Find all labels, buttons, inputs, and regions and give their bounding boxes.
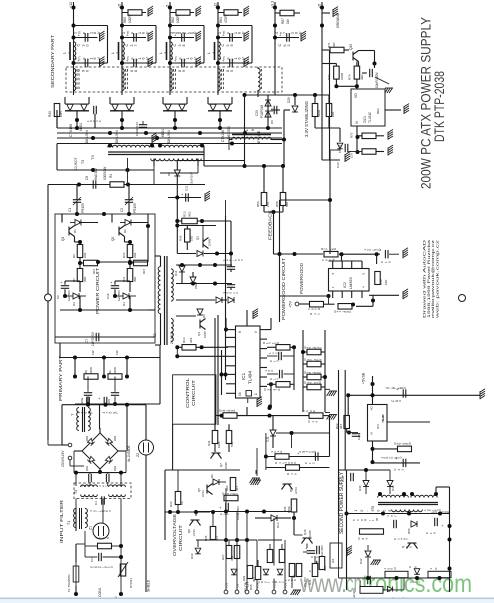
- junction: [126, 183, 130, 187]
- wire cx1 down: [89, 482, 91, 486]
- junction: [119, 592, 123, 596]
- junction: [198, 263, 202, 267]
- stub a D20: [114, 103, 116, 106]
- junction: [200, 219, 204, 223]
- wire bus to bridge right: [126, 405, 128, 451]
- bus wire y=128: [57, 127, 282, 129]
- resistor R4: [110, 182, 124, 188]
- powergood left vertical: [279, 200, 281, 322]
- toroid core dash b x=218: [223, 69, 225, 90]
- svg-text:D30: D30: [391, 485, 395, 491]
- varistor Z2: [139, 440, 154, 455]
- wire y253 a: [177, 253, 196, 255]
- junction: [448, 524, 452, 528]
- wire TL431 ref out: [385, 109, 401, 111]
- drop R9: [74, 358, 76, 377]
- T3 tap b: [201, 144, 203, 146]
- wire to R net Q2: [125, 241, 131, 243]
- svg-text:D4: D4: [122, 302, 126, 306]
- diode D20b: [126, 104, 132, 110]
- wire selector to bridge: [70, 465, 84, 467]
- wire term -5V: [236, 584, 238, 590]
- svg-text:D91: D91: [85, 465, 89, 471]
- junction: [191, 282, 195, 286]
- capacitor C29: [274, 106, 277, 114]
- resistor R72: [334, 66, 340, 79]
- resistor R38: [307, 374, 321, 380]
- power circuit outline box: [55, 214, 155, 343]
- resistor R15: [307, 361, 321, 367]
- wire R54 right: [237, 415, 247, 417]
- junction: [200, 345, 204, 349]
- junction: [102, 212, 106, 216]
- svg-text:C21: C21: [185, 185, 189, 191]
- stub: [230, 265, 232, 267]
- capacitor C11d: [227, 267, 235, 270]
- wire bridge right: [118, 450, 126, 452]
- junction: [72, 36, 76, 40]
- stub R72: [335, 64, 337, 67]
- diode D9v: [174, 170, 180, 176]
- drop R2 right: [126, 358, 128, 377]
- wire to R75: [358, 135, 363, 137]
- diode ZD02: [277, 569, 283, 575]
- junction: [113, 402, 117, 406]
- junction: [245, 538, 249, 542]
- svg-text:560R: 560R: [317, 109, 321, 117]
- junction: [373, 62, 377, 66]
- resistor R88: [428, 571, 451, 577]
- transformer T2 secondary upper: [171, 269, 173, 301]
- junction: [200, 144, 204, 148]
- svg-text:1uF/25V: 1uF/25V: [352, 588, 356, 599]
- resistor R90: [360, 587, 383, 594]
- junction: [175, 354, 179, 358]
- junction: [211, 510, 215, 514]
- stub R31: [269, 544, 271, 550]
- stub2: [230, 269, 232, 272]
- wire pin9 jog: [267, 329, 271, 331]
- resistor R41: [338, 304, 352, 310]
- resistor R45: [307, 349, 321, 355]
- resistor R13: [182, 218, 198, 224]
- svg-text:A733: A733: [294, 487, 298, 494]
- arrow mark C1: [73, 197, 81, 205]
- wire to D13: [255, 517, 271, 519]
- T2 core bar 2: [166, 256, 168, 345]
- wire right join vertical: [293, 356, 295, 390]
- T5 winding c: [81, 495, 98, 497]
- wire to R87: [275, 12, 280, 14]
- capacitor C90: [85, 59, 88, 67]
- junction: [375, 252, 379, 256]
- svg-text:9: 9: [254, 331, 258, 333]
- capacitor C32: [368, 576, 371, 584]
- svg-text:VI: VI: [355, 121, 359, 124]
- long vertical x338: [338, 370, 340, 514]
- marker circle left: [45, 294, 52, 301]
- capacitor C3: [84, 393, 92, 396]
- svg-text:100K: 100K: [217, 441, 221, 448]
- svg-text:web: pavouk.comp.cz: web: pavouk.comp.cz: [435, 239, 439, 318]
- junction: [126, 168, 130, 172]
- wire R14 right: [196, 346, 228, 348]
- wire bus y449: [373, 448, 411, 450]
- wire join y540: [213, 539, 237, 541]
- wire C14 left: [85, 556, 97, 558]
- diode D9h: [213, 479, 219, 485]
- stub R41: [352, 305, 354, 307]
- wire IC3 gnd long: [387, 421, 430, 423]
- junction: [96, 260, 100, 264]
- resistor R29: [247, 566, 253, 579]
- resistor R16: [127, 245, 133, 258]
- wire R25 top: [212, 512, 214, 527]
- svg-text:15R: 15R: [59, 110, 63, 117]
- wire T1 span: [75, 508, 77, 531]
- capacitor C22: [307, 551, 315, 554]
- long vertical x345: [344, 370, 346, 470]
- svg-text:CIRCUIT: CIRCUIT: [191, 380, 196, 406]
- junction: [108, 131, 112, 135]
- wire x330 top: [330, 149, 340, 151]
- svg-text:C945: C945: [308, 530, 312, 537]
- wire C9 bottom: [64, 289, 66, 296]
- svg-text:CONTROL: CONTROL: [185, 377, 190, 408]
- svg-text:INPUT FILTER: INPUT FILTER: [59, 499, 64, 543]
- resistor R49: [54, 104, 60, 117]
- svg-text:R4: R4: [109, 174, 113, 178]
- wire cap row C38: [170, 37, 194, 39]
- junction: [102, 375, 106, 379]
- svg-text:R9: R9: [84, 370, 88, 374]
- svg-text:R60: R60: [123, 17, 127, 23]
- junction: [278, 252, 282, 256]
- stub a D19: [69, 103, 71, 106]
- junction: [215, 252, 219, 256]
- package bar D22: [208, 110, 232, 112]
- wire D30b top: [389, 470, 391, 481]
- lead b D21: [186, 97, 188, 104]
- svg-text:3.3V STABILIZING: 3.3V STABILIZING: [304, 101, 309, 137]
- wire vertical x218: [217, 315, 219, 425]
- junction: [269, 382, 273, 386]
- IC1 right pin y=349: [260, 348, 267, 350]
- svg-text:C8: C8: [85, 176, 89, 180]
- wire term feed 2: [236, 512, 238, 585]
- svg-text:ZIC1: ZIC1: [363, 116, 367, 123]
- loop wire return C90: [98, 62, 108, 64]
- wire D11 bottom: [272, 436, 274, 448]
- wire bus to Z2: [145, 405, 147, 440]
- resistor R85: [398, 446, 412, 452]
- wire TL431 bottom: [356, 126, 358, 152]
- stub cx2: [107, 473, 109, 474]
- wire mid Q2: [129, 258, 131, 269]
- junction: [175, 196, 179, 200]
- wire xcap to T5: [75, 473, 77, 486]
- wire pg mid: [280, 295, 329, 297]
- wire C9 top: [64, 281, 66, 285]
- stub T4: [257, 67, 259, 69]
- diode D20a: [112, 104, 118, 110]
- junction: [407, 512, 411, 516]
- wire vertical x215: [214, 318, 216, 425]
- svg-text:3K3: 3K3: [189, 337, 193, 343]
- junction: [356, 135, 360, 139]
- junction: [173, 126, 177, 130]
- junction: [63, 294, 67, 298]
- transistor Q5: [207, 484, 213, 495]
- wire bottom row drop: [403, 578, 405, 590]
- ground of C85: [244, 57, 249, 67]
- resistor R1d: [98, 543, 112, 549]
- ground above IC1: [253, 309, 258, 319]
- T5 winding a: [81, 485, 98, 487]
- wire dot to IC2: [341, 254, 343, 261]
- svg-text:10K: 10K: [384, 280, 388, 285]
- resistor R39: [307, 384, 321, 390]
- wire R42 to R41: [324, 303, 335, 305]
- wire ovp left vertical: [164, 470, 166, 540]
- junction: [320, 6, 324, 10]
- wire xcap to T5 b: [120, 473, 122, 486]
- junction: [72, 61, 76, 65]
- wire rectifier D22: [208, 103, 232, 105]
- svg-text:D13: D13: [276, 522, 280, 528]
- junction: [347, 431, 351, 435]
- junction: [72, 6, 76, 10]
- resistor R31: [267, 550, 273, 563]
- wire IC3 bottom: [372, 441, 374, 463]
- wire mid Q1: [79, 258, 81, 269]
- wire C7 level: [55, 336, 155, 338]
- svg-text:TL494: TL494: [248, 371, 253, 384]
- resistor R74: [354, 66, 360, 79]
- wire to Q4 base: [176, 315, 196, 317]
- wire vertical x221: [221, 350, 223, 395]
- IC2 top pin x=352: [351, 261, 353, 269]
- wire R37 to C18: [339, 253, 380, 255]
- choke L1: [74, 42, 76, 60]
- IC2 top pin x=342: [341, 261, 343, 269]
- core bar of L2: [118, 42, 120, 60]
- resistor R35: [255, 567, 261, 580]
- wire R74 bottom: [356, 79, 358, 86]
- resistor R30: [289, 564, 295, 577]
- svg-text:16: 16: [238, 392, 242, 396]
- diode D24: [231, 569, 237, 575]
- wire C13 out: [283, 355, 294, 357]
- resistor R25: [210, 527, 216, 540]
- IC2 bottom pin x=362: [361, 291, 363, 298]
- wire T2 bottom to box: [155, 344, 161, 346]
- stub R R38: [321, 376, 325, 378]
- wire left drop 3.3V: [244, 95, 246, 158]
- junction: [175, 345, 179, 349]
- core bar of L3: [166, 42, 168, 60]
- svg-text:POWERGOOD CIRCUIT: POWERGOOD CIRCUIT: [281, 258, 286, 320]
- IC1 left pin y=356: [226, 355, 236, 357]
- diode D32: [365, 551, 371, 557]
- wire top powergood link: [280, 199, 331, 201]
- IC2 top pin x=362: [361, 261, 363, 269]
- T5 winding b: [109, 485, 126, 487]
- wire D30a bottom: [365, 487, 367, 495]
- svg-text:100uF/16V: 100uF/16V: [135, 122, 139, 136]
- wire D29 top: [294, 95, 296, 105]
- svg-text:1K: 1K: [292, 574, 296, 578]
- svg-text:-5V: -5V: [236, 583, 240, 588]
- wire bridge right down: [125, 451, 127, 473]
- capacitor C5bulk: [87, 397, 90, 405]
- wire L6 left down: [228, 140, 230, 151]
- svg-text:R58: R58: [275, 201, 279, 207]
- toroid winding x=73: [74, 69, 76, 91]
- resistor R35b: [312, 564, 318, 577]
- wire feedback join a: [273, 248, 275, 254]
- wire lower join b: [129, 296, 131, 310]
- wire C10 bottom: [114, 289, 116, 296]
- junction: [108, 144, 112, 148]
- wire cap row C89: [170, 62, 194, 64]
- T core bar 2: [84, 407, 86, 432]
- pin 1 marker square: [246, 391, 252, 397]
- svg-text:1W: 1W: [115, 350, 119, 355]
- wire +5VSB bus: [348, 394, 480, 396]
- wire cluster right vertical: [329, 416, 331, 457]
- junction: [175, 224, 179, 228]
- wire bus y463: [373, 462, 421, 464]
- loop wire right C88: [155, 26, 157, 64]
- svg-text:C32: C32: [358, 580, 362, 586]
- package bar D20: [110, 110, 134, 112]
- junction: [224, 538, 228, 542]
- wire Q13 emitter: [358, 62, 360, 67]
- svg-text:P10P048: P10P048: [260, 105, 264, 118]
- lead a D20: [109, 97, 111, 104]
- junction: [168, 61, 172, 65]
- transistor Q4: [200, 319, 206, 330]
- terminal -12V: [245, 590, 249, 594]
- svg-text:22uF/16V: 22uF/16V: [190, 172, 194, 185]
- svg-text:PR155: PR155: [133, 203, 137, 213]
- svg-text:C4: C4: [94, 501, 98, 505]
- ground R75: [388, 129, 393, 139]
- svg-text:R34: R34: [169, 501, 173, 507]
- bridge diode D91: [87, 456, 94, 463]
- stub ZD18: [192, 283, 194, 286]
- wire to Q19 base: [294, 534, 303, 536]
- diode D33: [387, 586, 392, 591]
- svg-text:4K7: 4K7: [339, 423, 343, 429]
- wire R73 bottom: [328, 117, 330, 129]
- resistor R24: [296, 564, 302, 577]
- wire x338 lower: [338, 514, 340, 578]
- wire Q8 up: [195, 512, 197, 516]
- resistor R54: [223, 413, 237, 419]
- wire R19 right: [323, 415, 330, 417]
- junction: [293, 93, 297, 97]
- wire R56 top: [263, 166, 265, 193]
- stub R R39: [321, 386, 325, 388]
- junction: [230, 142, 234, 146]
- T5 winding d: [109, 495, 126, 497]
- svg-text:C7: C7: [85, 339, 89, 343]
- wire R3 bottom Q2: [129, 281, 131, 292]
- svg-text:T6: T6: [371, 506, 375, 510]
- wire R49 bus: [56, 110, 58, 128]
- svg-text:R75: R75: [350, 132, 354, 138]
- stub: [212, 481, 215, 483]
- transformer T6 winding left: [378, 495, 409, 497]
- junction: [213, 282, 217, 286]
- wire D32 top: [367, 545, 369, 550]
- wire lower bus: [60, 309, 148, 311]
- svg-text:TL431C: TL431C: [368, 111, 372, 123]
- rail -12: [217, 2, 219, 95]
- ground near IC4: [347, 546, 352, 556]
- ground of C89: [196, 57, 201, 67]
- junction: [340, 252, 344, 256]
- loop wire right C85: [251, 26, 253, 64]
- svg-text:D92: D92: [85, 435, 89, 441]
- T3 core line 2: [108, 154, 204, 156]
- resistor R37: [324, 251, 338, 257]
- svg-text:4x 1N5406: 4x 1N5406: [127, 445, 131, 462]
- junction: [218, 126, 222, 130]
- junction: [91, 168, 95, 172]
- wire term feed 5a: [273, 518, 275, 566]
- wire y433: [276, 432, 330, 434]
- junction: [150, 144, 154, 148]
- stub Q1 top: [61, 214, 63, 223]
- wire out of L6: [271, 139, 285, 141]
- junction: [327, 294, 331, 298]
- junction: [194, 510, 198, 514]
- svg-text:Q8: Q8: [187, 529, 191, 533]
- wire C25 to bus: [94, 114, 96, 128]
- wire cap row C88: [122, 62, 146, 64]
- stub R8: [80, 262, 84, 264]
- wire R58 top: [282, 166, 284, 193]
- stub cx1: [89, 473, 91, 474]
- wire rail to R71: [322, 49, 329, 51]
- diode D5: [265, 100, 271, 106]
- junction: [113, 294, 117, 298]
- wire D10 top: [197, 540, 199, 547]
- wire into TL431: [356, 86, 358, 89]
- wire ovp bus mid: [165, 511, 210, 513]
- svg-text:1: 1: [254, 393, 258, 395]
- wire box to bus: [59, 343, 61, 358]
- diode D21b: [179, 104, 185, 110]
- toroid core dash a x=170: [173, 69, 175, 90]
- svg-text:+5VSB: +5VSB: [362, 372, 366, 384]
- junction: [264, 455, 268, 459]
- svg-text:BYV42E: BYV42E: [257, 130, 261, 143]
- junction: [168, 24, 172, 28]
- wire to C14b: [267, 373, 278, 375]
- wire R16 out: [290, 346, 294, 348]
- diode D7: [228, 297, 234, 303]
- svg-text:R61: R61: [219, 17, 223, 23]
- loop wire return C85: [242, 62, 252, 64]
- junction: [120, 24, 124, 28]
- svg-text:27K: 27K: [266, 202, 270, 207]
- diode ZD3: [337, 143, 343, 149]
- capacitor C17: [226, 503, 229, 511]
